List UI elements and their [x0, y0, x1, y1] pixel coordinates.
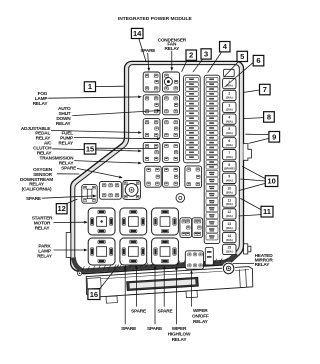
svg-text:8: 8 — [267, 113, 271, 122]
relay A3 — [143, 119, 160, 139]
svg-text:(40A): (40A) — [226, 143, 233, 147]
mini fuse bank column 2 — [204, 75, 220, 243]
cartridge fuse 15 — [223, 244, 236, 254]
svg-text:PARKLAMPRELAY: PARKLAMPRELAY — [37, 243, 53, 259]
svg-text:(30A): (30A) — [226, 107, 233, 111]
svg-text:2: 2 — [189, 51, 193, 60]
wire callout 1 leader — [96, 85, 124, 87]
cartridge fuse 14 — [223, 232, 236, 242]
wire callout 6 leader — [225, 62, 254, 87]
svg-text:15: 15 — [228, 246, 232, 250]
callout 14 — [131, 28, 143, 38]
wire callout 16 leader — [100, 265, 119, 289]
wire callout 3 leader — [193, 59, 203, 72]
IPM cover outer outline — [71, 61, 244, 273]
wire callout 12 leader — [66, 199, 78, 204]
callout 8 — [264, 112, 275, 123]
wire spare top leader — [147, 53, 150, 69]
small fuse holder — [205, 248, 213, 265]
svg-text:2: 2 — [228, 92, 230, 96]
wire transmission leader — [74, 161, 139, 163]
relay A2 — [143, 95, 160, 115]
spare relay E — [120, 238, 147, 265]
wire callout 7 leader — [244, 90, 260, 92]
callout 6 — [253, 55, 264, 66]
wire spare bottom 4 leader — [154, 268, 156, 324]
wire condenser leader — [171, 51, 173, 68]
spare relay C — [120, 208, 147, 235]
relay A5 — [145, 166, 161, 187]
callout 10 — [265, 176, 278, 187]
callout 15 — [84, 144, 96, 154]
svg-text:12: 12 — [228, 210, 232, 214]
cartridge fuse 13 — [223, 221, 236, 231]
right edge lower tab — [244, 244, 248, 254]
wire callout 9 leaders — [245, 133, 268, 135]
callout 2 — [186, 50, 197, 60]
dark hatched bottom edge band — [74, 254, 237, 271]
svg-text:14: 14 — [228, 234, 232, 238]
wire auto shut down leader — [72, 111, 158, 116]
wire fog lamp leader — [48, 97, 139, 98]
svg-text:SPARE: SPARE — [131, 309, 146, 315]
relay small pair B — [192, 218, 203, 238]
wire callout 2 leader — [182, 60, 187, 71]
round grommet — [176, 194, 185, 203]
wiper on/off relay — [185, 251, 203, 269]
wire starter motor leader — [53, 221, 85, 223]
relay B1 — [163, 72, 180, 92]
svg-text:3: 3 — [204, 50, 208, 59]
svg-text:16: 16 — [90, 290, 98, 299]
cartridge fuse column connector — [224, 69, 235, 76]
callout 4 — [220, 42, 231, 52]
relay A4 — [143, 142, 160, 162]
wire oxygen sensor leader — [57, 173, 79, 175]
svg-text:INTEGRATED POWER MODULE: INTEGRATED POWER MODULE — [118, 16, 193, 22]
svg-text:10: 10 — [267, 177, 275, 186]
wire spare bottom 1 leader — [136, 268, 138, 307]
relay oxygen sensor downstream (wide) — [99, 181, 121, 199]
callout 7 — [260, 84, 271, 95]
callout 9 — [269, 132, 280, 143]
relay B4 — [163, 142, 180, 162]
svg-text:SPARE: SPARE — [26, 196, 41, 202]
wire heated mirror leader — [233, 263, 254, 265]
svg-text:(40A): (40A) — [226, 84, 233, 88]
svg-text:OXYGENSENSOR: OXYGENSENSOR — [33, 167, 53, 178]
relay B5 — [163, 166, 180, 187]
callout 1 — [84, 82, 95, 92]
svg-text:(40A): (40A) — [226, 119, 233, 123]
svg-text:3: 3 — [228, 104, 230, 108]
svg-text:(30A): (30A) — [226, 96, 233, 100]
IPM cover inner outline — [75, 65, 240, 270]
callout 3 — [201, 49, 211, 59]
wire wiper high/low leader — [175, 268, 177, 324]
cartridge fuse 2 — [223, 90, 236, 100]
svg-text:5: 5 — [240, 52, 244, 61]
cartridge fuse 11 — [223, 197, 236, 207]
svg-text:9: 9 — [228, 175, 230, 179]
mini fuse bank column 1 — [184, 75, 201, 163]
cartridge fuse 3 — [223, 102, 236, 112]
spare relay D — [152, 208, 179, 235]
wire callout 10 leaders — [242, 166, 265, 178]
svg-text:(50A): (50A) — [226, 190, 233, 194]
wire callout 14 leader — [139, 39, 146, 62]
callout 5 — [237, 51, 248, 61]
cartridge fuse 9 — [223, 173, 236, 183]
svg-text:(40A): (40A) — [226, 131, 233, 135]
svg-text:SPARE: SPARE — [147, 326, 162, 332]
svg-text:SPARE: SPARE — [61, 165, 76, 171]
svg-text:(40A): (40A) — [226, 238, 233, 242]
svg-text:SPARE: SPARE — [121, 326, 136, 332]
svg-text:14: 14 — [133, 29, 142, 38]
left edge tab — [66, 232, 71, 257]
svg-text:(40A): (40A) — [226, 155, 233, 159]
cartridge fuse 7 — [223, 150, 236, 160]
svg-text:(40A): (40A) — [226, 214, 233, 218]
svg-text:10: 10 — [228, 186, 232, 190]
cartridge fuse 1 — [223, 78, 236, 88]
svg-text:(SPARE): (SPARE) — [224, 167, 235, 171]
cartridge fuse 6 — [223, 138, 236, 148]
wire spare bottom 3 leader — [124, 268, 126, 324]
tray left notch — [87, 278, 101, 289]
tray slot — [127, 277, 199, 290]
wire callout 8 leader — [244, 118, 264, 119]
svg-text:9: 9 — [272, 132, 276, 141]
wire park lamp leader — [54, 249, 85, 251]
screw hole bottom-left — [77, 271, 81, 275]
svg-text:5: 5 — [228, 127, 230, 131]
svg-text:(30A): (30A) — [226, 250, 233, 254]
wire adjustable pedal leader — [51, 130, 139, 132]
svg-text:(30A): (30A) — [226, 202, 233, 206]
svg-text:11: 11 — [228, 198, 232, 202]
callout 11 — [261, 206, 273, 217]
svg-text:4: 4 — [228, 115, 230, 119]
relay B3 — [163, 119, 180, 139]
wire spare leader — [77, 168, 120, 177]
svg-text:7: 7 — [228, 151, 230, 155]
callout 12 — [56, 204, 67, 214]
svg-text:6: 6 — [228, 139, 230, 143]
svg-text:6: 6 — [256, 56, 260, 65]
svg-text:FUELPUMPRELAY: FUELPUMPRELAY — [58, 131, 74, 147]
cartridge fuse 4 — [223, 114, 236, 124]
relay A1 — [143, 72, 160, 92]
wire fuel pump leader — [74, 137, 158, 138]
relay below fuse bank — [185, 166, 202, 188]
cartridge fuse 12 — [223, 209, 236, 219]
wire callout 5 leader — [224, 62, 239, 78]
tray foot left — [106, 296, 117, 303]
wire wiper on/off leader — [191, 272, 193, 306]
svg-text:13: 13 — [228, 222, 232, 226]
wire callout 11 leaders — [240, 198, 261, 209]
cartridge fuse 10 — [223, 185, 236, 195]
park lamp relay — [88, 238, 115, 265]
tray foot right — [186, 291, 197, 298]
svg-text:(40A): (40A) — [226, 179, 233, 183]
svg-text:12: 12 — [58, 204, 66, 213]
screw hole bottom-right — [222, 262, 235, 275]
wire a/c clutch leader — [52, 149, 139, 151]
callout 16 — [88, 289, 100, 300]
svg-text:(30A): (30A) — [226, 226, 233, 230]
svg-text:8: 8 — [228, 163, 230, 167]
relay small pair A — [180, 218, 192, 238]
relay california spare — [82, 185, 97, 204]
relay B2 — [163, 95, 180, 115]
tray right divider — [238, 269, 241, 287]
relay with ring socket — [123, 181, 140, 200]
svg-text:15: 15 — [86, 144, 94, 153]
svg-text:7: 7 — [263, 85, 267, 94]
svg-text:AUTOSHUTDOWNRELAY: AUTOSHUTDOWNRELAY — [56, 106, 72, 127]
svg-text:WIPERON/OFFRELAY: WIPERON/OFFRELAY — [192, 308, 209, 325]
wire spare california leader — [42, 196, 94, 198]
starter motor relay — [88, 208, 115, 235]
svg-text:11: 11 — [263, 207, 271, 216]
wire spare bottom 2 leader — [163, 268, 165, 307]
wiper high/low relay — [152, 238, 179, 265]
wire callout 15 leader — [96, 147, 158, 149]
right edge latch tab — [243, 144, 251, 161]
svg-text:SPARE: SPARE — [158, 309, 173, 315]
cartridge fuse 8 — [223, 161, 236, 171]
lower mounting tray — [86, 267, 253, 298]
wire callout 4 leader — [208, 52, 222, 73]
cartridge fuse 5 — [223, 126, 236, 136]
svg-text:1: 1 — [88, 82, 92, 91]
